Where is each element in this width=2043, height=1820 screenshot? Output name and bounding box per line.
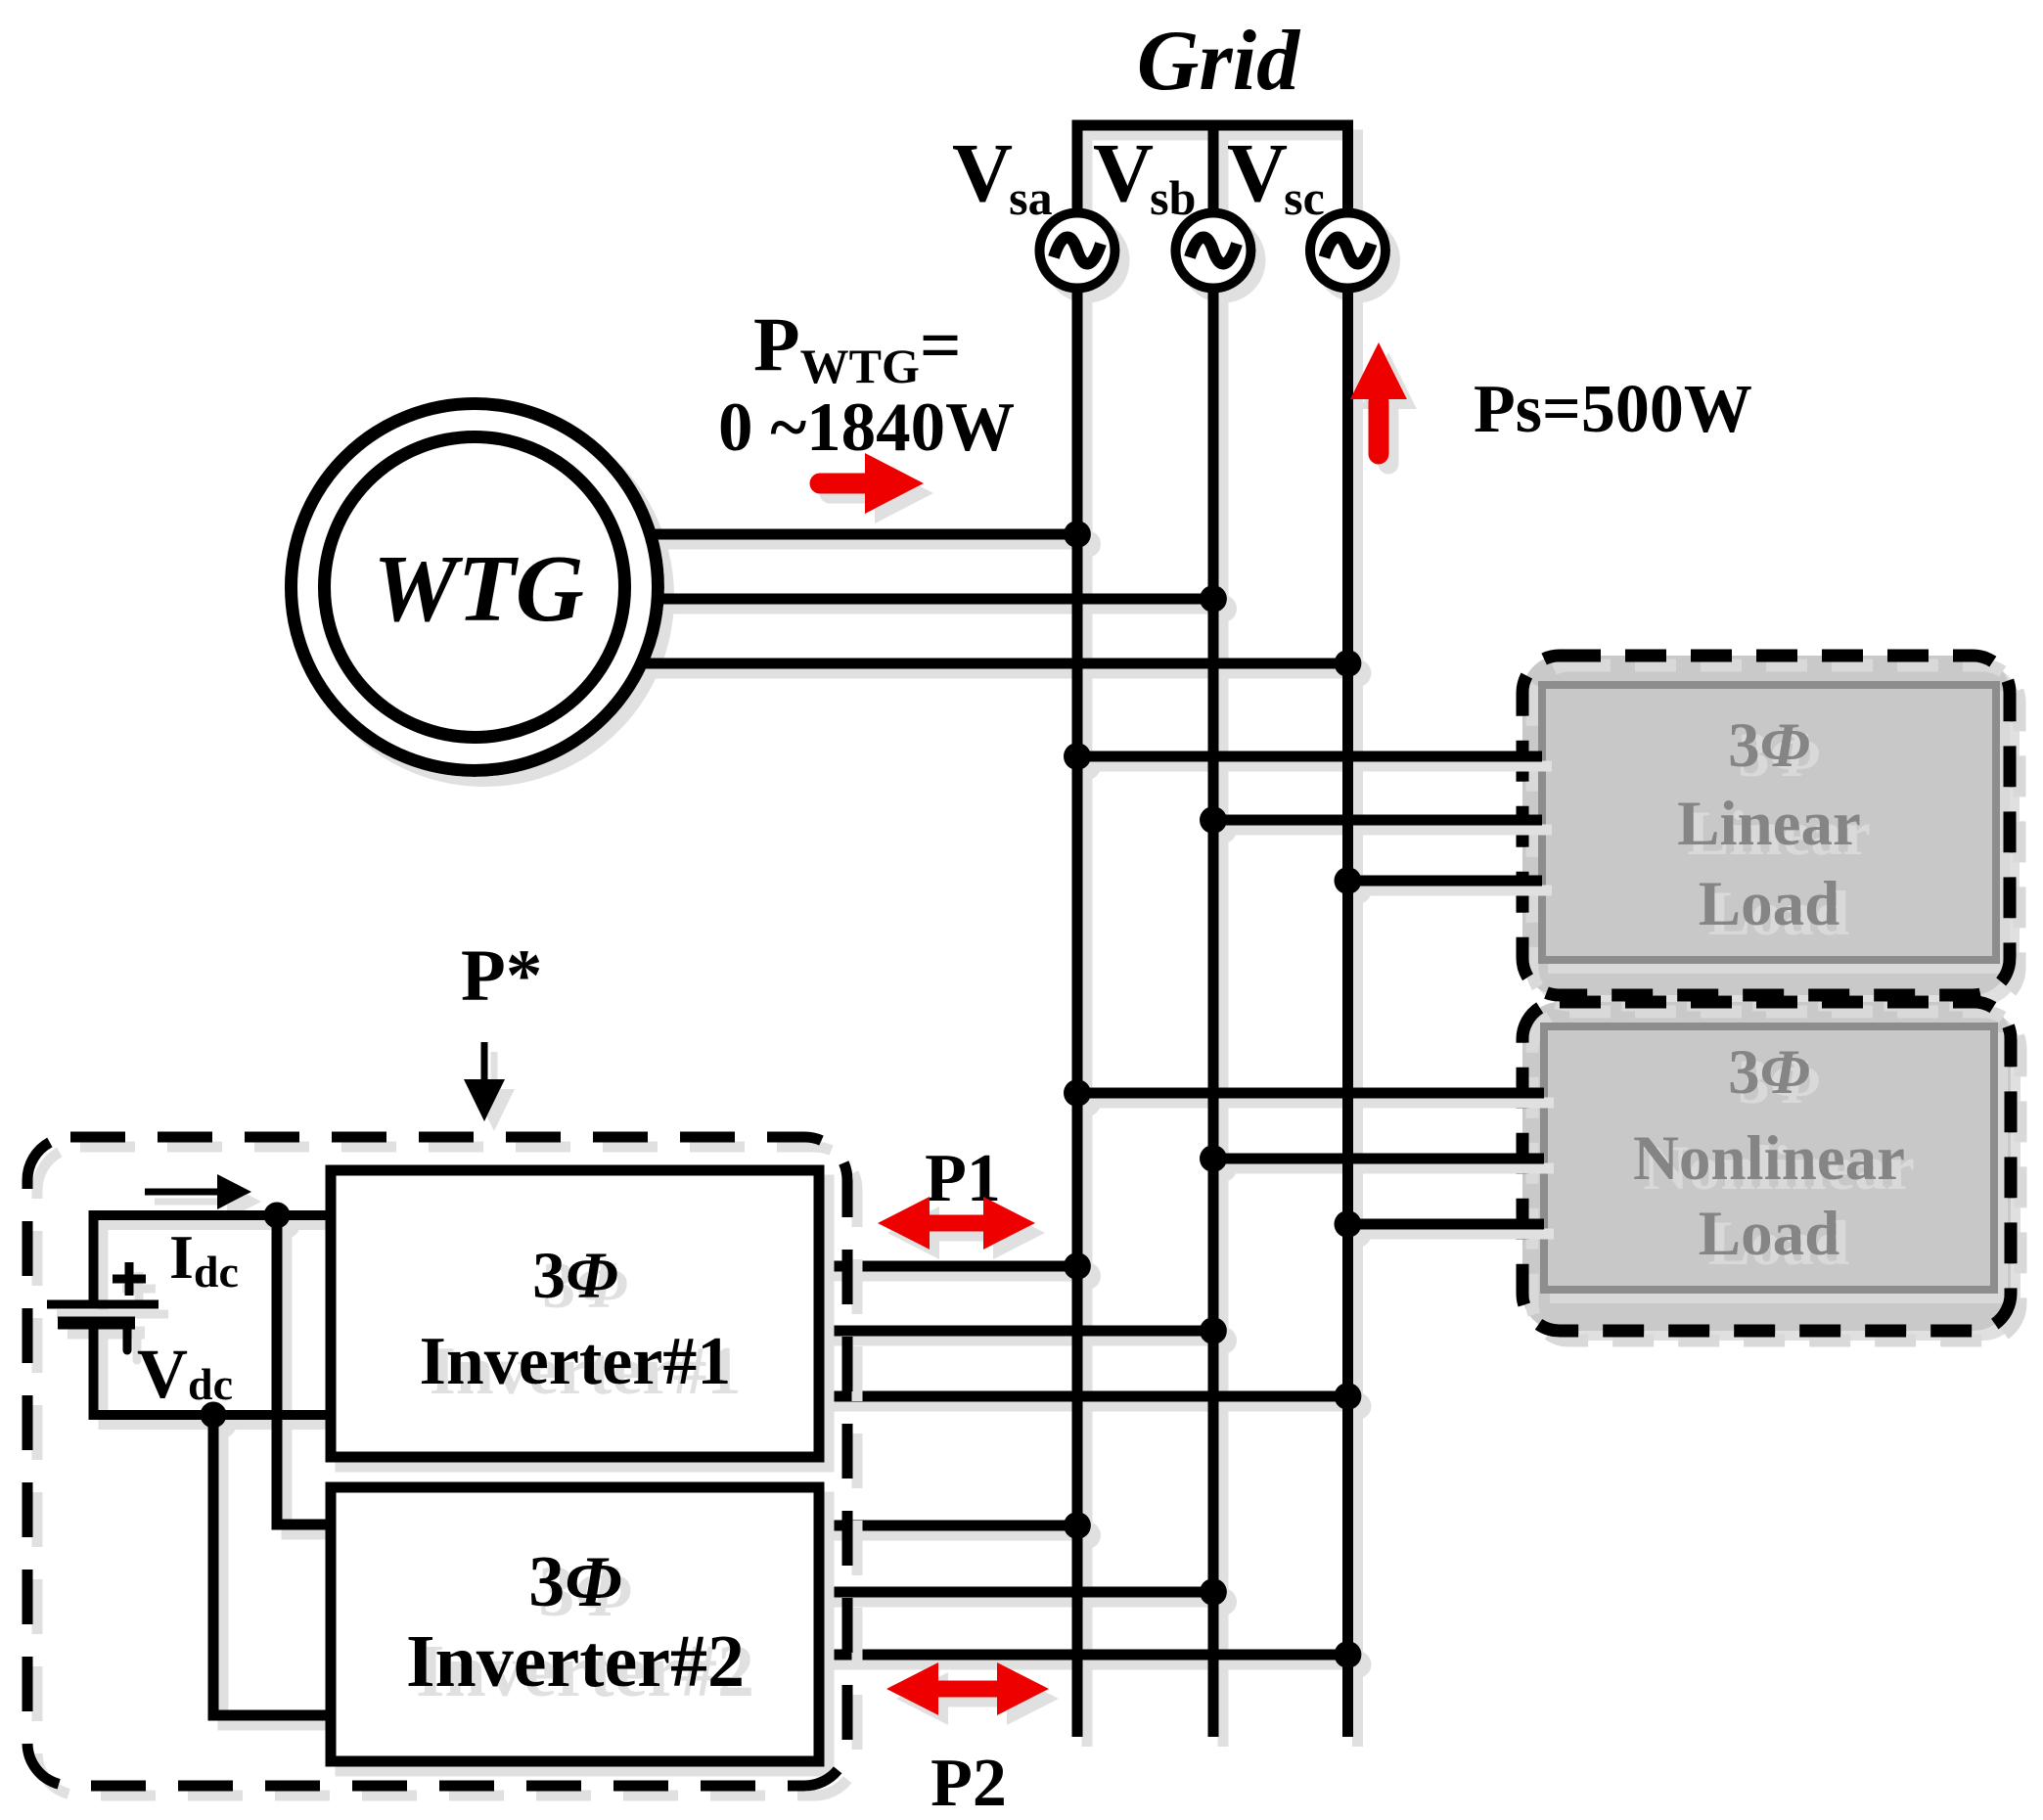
svg-text:Load: Load	[1699, 1199, 1840, 1269]
junction bus C / inverter1 phase c	[1335, 1383, 1362, 1410]
P* down arrow	[481, 1042, 488, 1084]
battery plus sign	[113, 1262, 146, 1296]
nonlinear load dashed border	[1522, 1002, 2011, 1331]
inverter2 output wire a	[819, 1521, 1077, 1531]
battery bottom rail	[89, 1410, 332, 1420]
wire to inverter2 positive	[277, 1215, 331, 1524]
nonlinear load wire b	[1213, 1154, 1544, 1164]
svg-text:3Φ: 3Φ	[1728, 710, 1810, 781]
3-phase nonlinear load box fill	[1522, 1002, 2011, 1331]
bus B	[1208, 291, 1219, 1737]
linear load inner rect	[1542, 685, 1996, 960]
junction bus A / linear load phase a	[1064, 743, 1091, 770]
junction dot bottom rail	[201, 1402, 227, 1429]
inverter2 box	[331, 1487, 819, 1761]
battery left wire	[89, 1215, 99, 1420]
P2 double arrow	[929, 1681, 1007, 1698]
junction bus C / WTG phase c	[1335, 650, 1362, 677]
junction bus B / linear load phase b	[1200, 806, 1227, 834]
nonlinear load wire c	[1348, 1219, 1545, 1230]
grid top bar	[1072, 120, 1354, 131]
AC source Vsa	[1040, 213, 1115, 289]
inverter2 output wire c	[819, 1650, 1348, 1661]
svg-text:Load: Load	[1699, 869, 1840, 939]
inverter1 output wire a	[819, 1261, 1077, 1272]
linear load wire b	[1213, 815, 1542, 826]
Idc arrow	[145, 1189, 221, 1196]
inverter1 box	[331, 1170, 819, 1457]
battery top rail	[89, 1210, 332, 1220]
WTG wire phase b	[658, 594, 1213, 605]
junction bus A / nonlinear load phase a	[1064, 1079, 1091, 1107]
junction bus A / inverter1 phase a	[1064, 1252, 1091, 1280]
WTG wire phase c	[646, 659, 1348, 669]
nonlinear load inner rect	[1544, 1026, 1994, 1290]
linear load dashed border	[1522, 656, 2010, 995]
bus B stub above source	[1208, 131, 1219, 211]
junction dot top rail	[264, 1203, 291, 1229]
svg-text:Nonlinear: Nonlinear	[1633, 1123, 1905, 1194]
svg-text:3Φ: 3Φ	[532, 1238, 618, 1312]
svg-text:P2: P2	[931, 1746, 1007, 1820]
bus C	[1342, 291, 1353, 1737]
bus A	[1072, 291, 1083, 1737]
AC source Vsb	[1176, 213, 1251, 289]
WTG generator circles	[292, 404, 658, 771]
svg-text:Grid: Grid	[1137, 14, 1301, 109]
bus C stub above source	[1342, 120, 1353, 211]
svg-text:Inverter#2: Inverter#2	[406, 1620, 745, 1703]
junction bus B / nonlinear load phase b	[1200, 1145, 1227, 1172]
junction bus B / WTG phase b	[1200, 585, 1227, 613]
junction bus C / linear load phase c	[1335, 867, 1362, 894]
wire to inverter2 negative	[213, 1415, 331, 1715]
inverter1 output wire c	[819, 1391, 1348, 1402]
svg-text:P*: P*	[461, 935, 542, 1017]
linear load wire a	[1077, 751, 1542, 762]
WTG wire phase a	[646, 529, 1077, 540]
battery plate negative	[58, 1317, 135, 1330]
svg-text:3Φ: 3Φ	[1728, 1037, 1810, 1108]
junction bus A / WTG phase a	[1064, 521, 1091, 548]
linear load wire c	[1348, 876, 1543, 887]
junction bus C / inverter2 phase c	[1335, 1641, 1362, 1668]
dashed controller border	[27, 1137, 847, 1786]
svg-text:Inverter#1: Inverter#1	[420, 1324, 732, 1399]
inverter2 output wire b	[819, 1587, 1213, 1598]
junction bus A / inverter2 phase a	[1064, 1512, 1091, 1539]
svg-text:Linear: Linear	[1677, 789, 1861, 859]
battery minus lead tick	[123, 1328, 132, 1350]
Ps red arrow	[1369, 401, 1389, 454]
inverter1 output wire b	[819, 1326, 1213, 1337]
junction bus C / nonlinear load phase c	[1335, 1210, 1362, 1238]
P1 double arrow	[920, 1215, 993, 1232]
junction bus B / inverter1 phase b	[1200, 1317, 1227, 1344]
nonlinear load wire a	[1077, 1088, 1544, 1099]
svg-text:3Φ: 3Φ	[528, 1542, 621, 1622]
3-phase linear load box fill	[1522, 656, 2010, 995]
AC source Vsc	[1310, 213, 1385, 289]
battery plate positive	[47, 1300, 159, 1309]
svg-text:Ps=500W: Ps=500W	[1474, 372, 1752, 447]
bus A stub above source	[1072, 120, 1083, 211]
junction bus B / inverter2 phase b	[1200, 1578, 1227, 1606]
svg-text:WTG: WTG	[373, 536, 584, 641]
PWTG red arrow	[820, 474, 871, 494]
